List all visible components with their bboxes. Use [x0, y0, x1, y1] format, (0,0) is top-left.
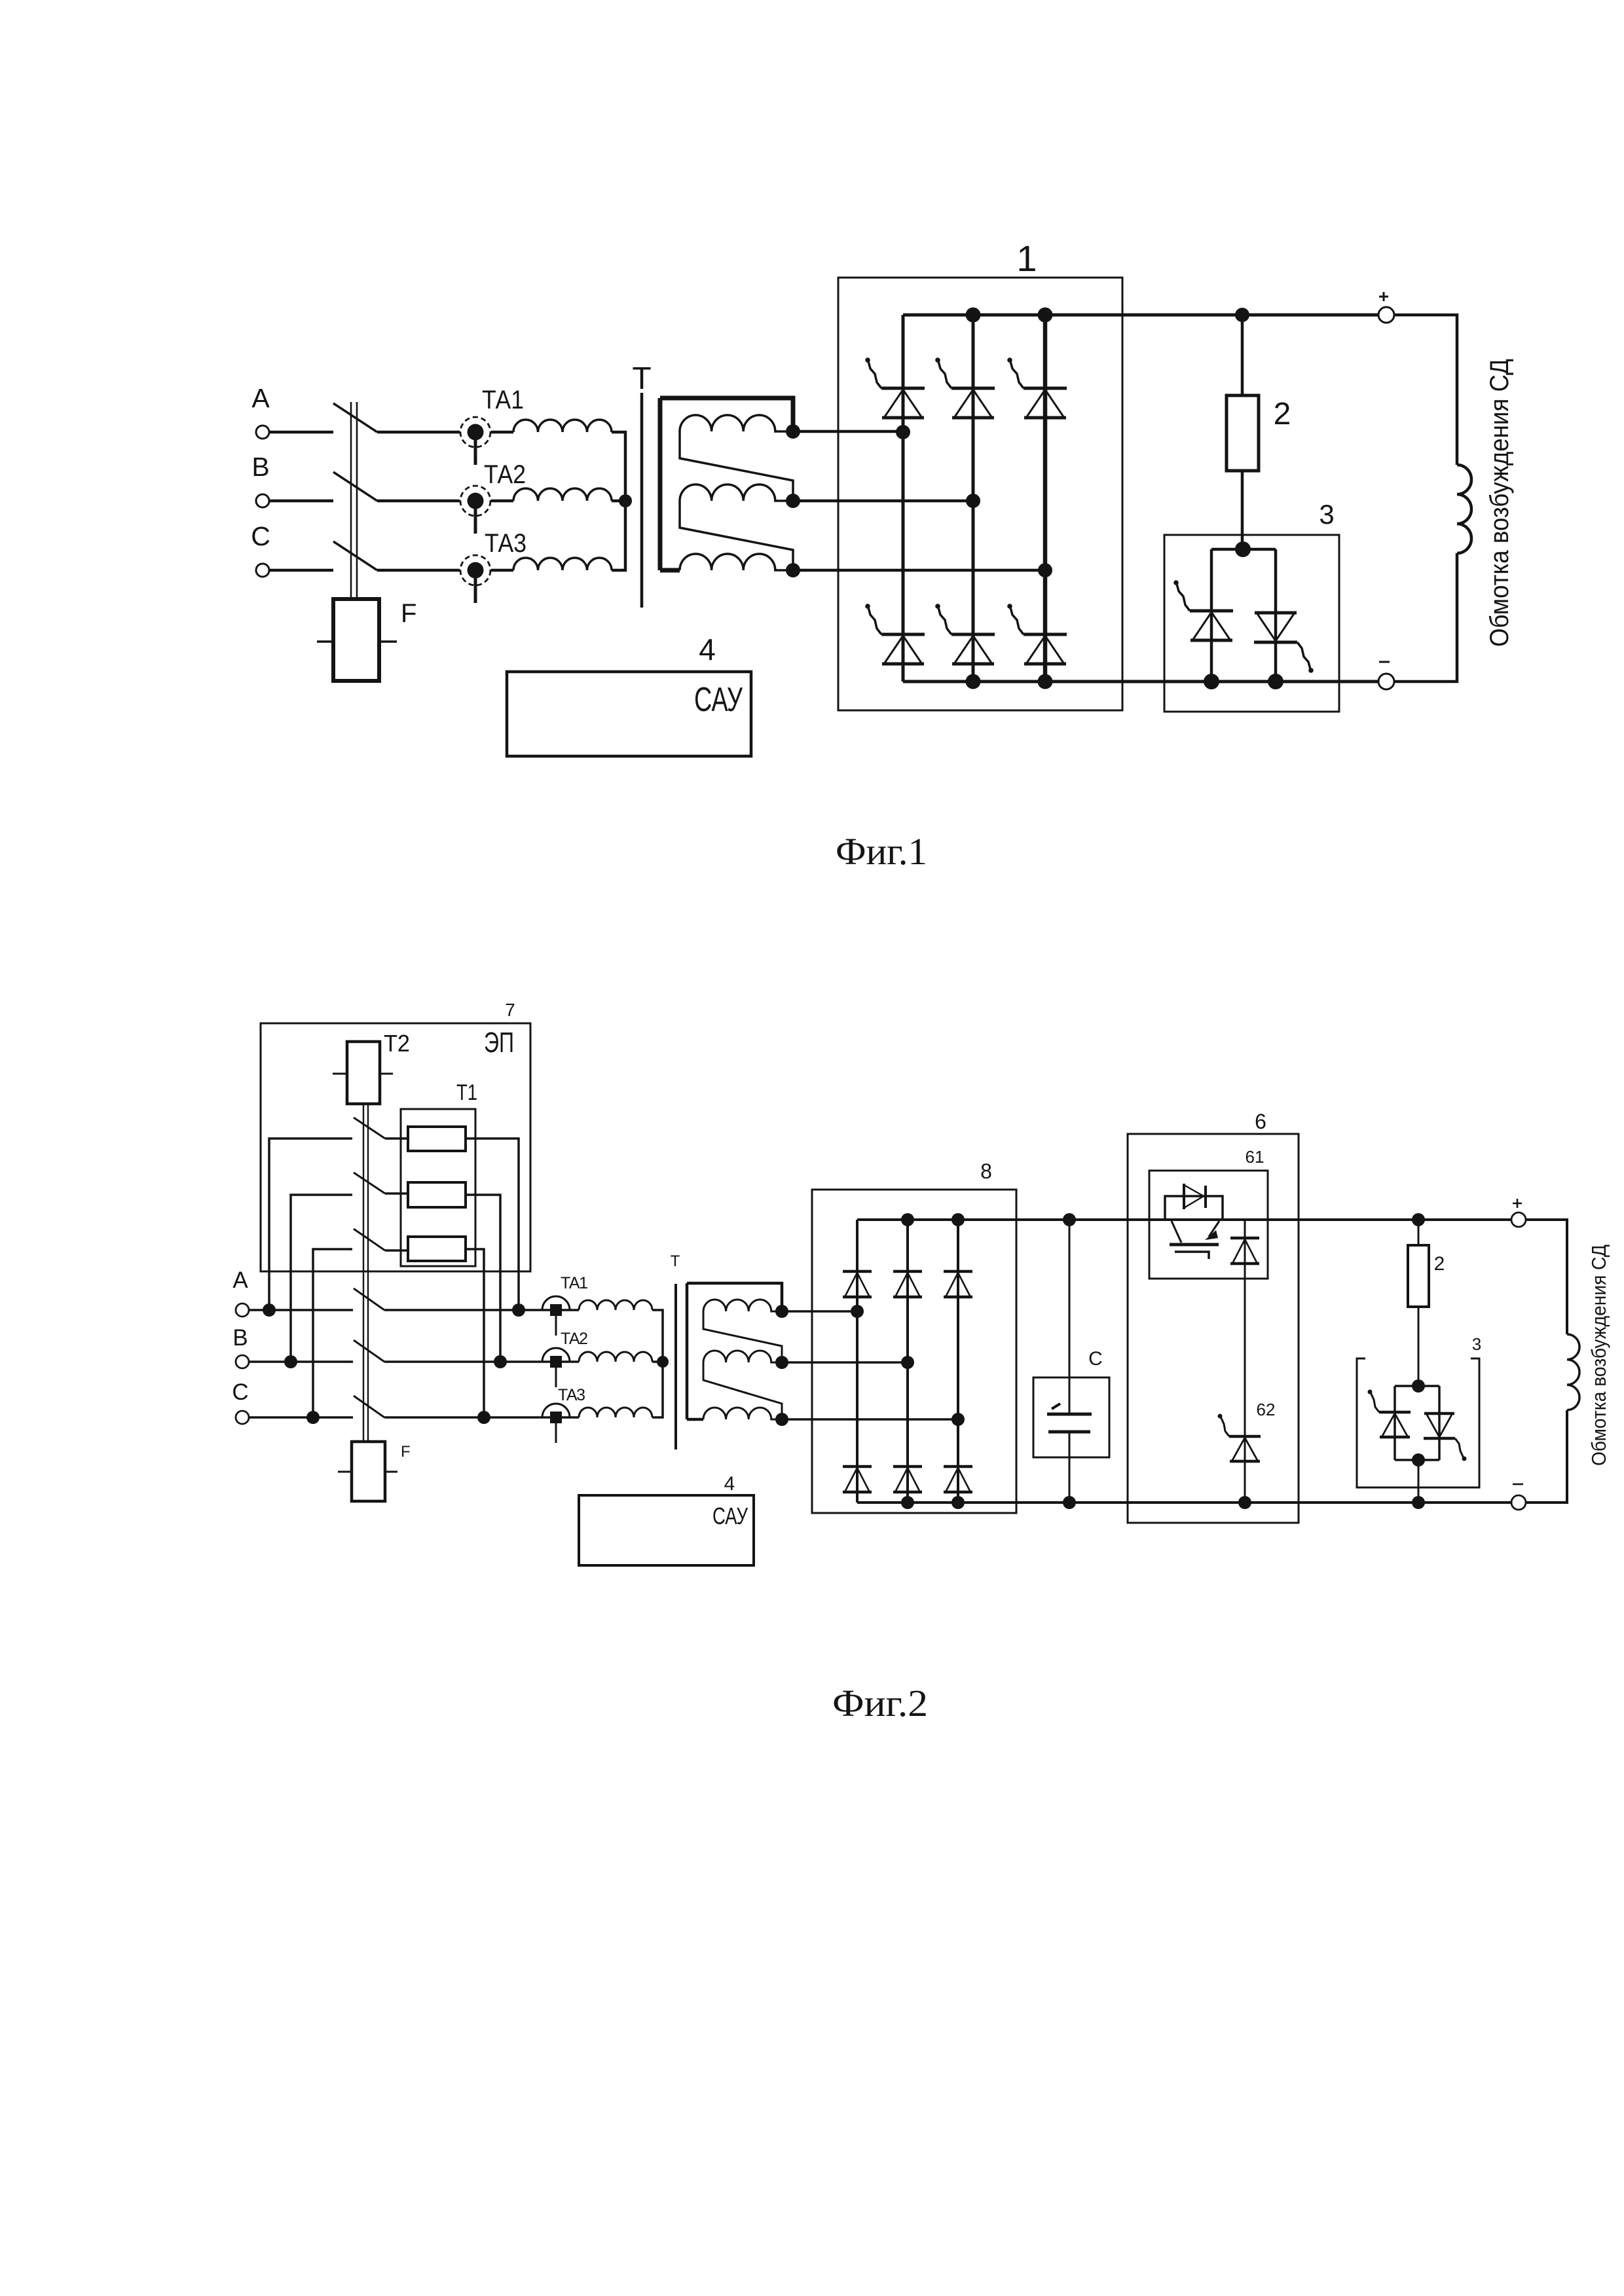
plus output terminal [1378, 307, 1394, 323]
TA3 secondary stub [474, 578, 477, 603]
wire coil1 to star point [612, 432, 625, 501]
svg-text:2: 2 [1434, 1253, 1445, 1275]
transformer T secondary winding 1 [680, 415, 793, 431]
chopper column wire [1244, 1220, 1246, 1503]
wire secondary2 a to bridge 8 [782, 1310, 857, 1313]
IGBT gate bar [1175, 1252, 1209, 1259]
svg-text:F: F [401, 1443, 411, 1461]
junction box3 left bottom [1204, 674, 1219, 689]
resistor 2-2 [1408, 1245, 1429, 1307]
wire bus to resistor 2-2 [1418, 1220, 1420, 1245]
transformer T primary winding 1 [513, 420, 612, 432]
wire secondary a to bridge [793, 430, 903, 433]
wire coil2 to star point [612, 500, 625, 503]
bridge 8 leg 2 [906, 1220, 909, 1503]
svg-text:ТА2: ТА2 [561, 1330, 588, 1348]
wire coil3 to star point [612, 501, 625, 570]
crowbar2 right branch [1438, 1386, 1441, 1460]
TA2-2 stub [555, 1368, 557, 1387]
diode bridge box 8 [812, 1190, 1016, 1513]
svg-text:F: F [401, 599, 416, 628]
TA1 secondary stub [474, 440, 477, 465]
wire phase C to switch [269, 569, 333, 572]
primary star junction [619, 494, 632, 507]
junction crowbar2 bottom [1412, 1453, 1425, 1467]
field winding [1457, 465, 1471, 553]
thyristor VS7 [1173, 580, 1233, 640]
wire TA2 to primary2 coil2 [562, 1360, 579, 1363]
plus sign 2 [1513, 1199, 1522, 1208]
wire TA3 to primary coil 3 [491, 569, 513, 572]
diode VD3 [944, 1271, 972, 1297]
svg-text:ЭП: ЭП [484, 1027, 514, 1059]
main switch blade phase A [354, 1288, 384, 1310]
junction crowbar2 bus [1412, 1496, 1425, 1509]
switch QF blade phase B [333, 472, 377, 501]
diode VD5 [893, 1467, 922, 1492]
transformer T secondary winding 2 [680, 484, 793, 501]
junction positive bus to resistor [1235, 308, 1249, 322]
bypass diode bar2 [1204, 1186, 1207, 1208]
svg-text:САУ: САУ [712, 1503, 748, 1529]
IGBT module box 61 [1149, 1171, 1268, 1279]
bridge 8 leg 1 [856, 1220, 858, 1503]
wire capacitor to negative bus [1069, 1432, 1071, 1503]
crowbar2 top link [1395, 1385, 1439, 1387]
switch linkage double line [351, 402, 357, 599]
wire TA2 to primary coil 2 [491, 500, 513, 503]
wire phase C2 [249, 1416, 353, 1419]
svg-text:4: 4 [724, 1473, 735, 1495]
minus output terminal [1378, 674, 1394, 689]
svg-text:4: 4 [699, 632, 716, 666]
junction bus to resistor 2-2 [1412, 1213, 1425, 1226]
zigzag link 2 [680, 501, 793, 570]
svg-text:3: 3 [1472, 1334, 1481, 1354]
crowbar box 3-2 [1357, 1358, 1479, 1487]
junction tap A [263, 1303, 276, 1317]
transformer T2 core bar [674, 1284, 677, 1449]
wire phase A to switch [269, 431, 333, 434]
thyristor 62 [1218, 1414, 1261, 1462]
thyristor VS6 [1007, 604, 1067, 664]
wire switch C to TA3 [377, 569, 460, 572]
thyristor VS4 [865, 604, 925, 664]
svg-text:7: 7 [505, 1000, 515, 1020]
junction input c2 [951, 1413, 965, 1426]
svg-text:Т1: Т1 [456, 1080, 477, 1105]
current transformer TA3-2 [542, 1404, 570, 1417]
junction capacitor top [1063, 1213, 1076, 1226]
wire resistor 2-2 to crowbar 2 [1418, 1307, 1420, 1386]
thyristor VS3 [1007, 357, 1067, 418]
secondary node a [786, 424, 800, 439]
bypass diode triangle [1184, 1185, 1204, 1208]
svg-text:С: С [1088, 1348, 1103, 1370]
resistor 2 [1227, 395, 1259, 471]
junction box3 right bottom [1268, 674, 1283, 689]
junction crowbar2 top [1412, 1379, 1425, 1393]
junction return B [494, 1355, 507, 1368]
drive F box [333, 599, 379, 681]
junction tap C [306, 1411, 320, 1424]
minus sign [1379, 661, 1390, 663]
secondary bottom link [660, 568, 680, 573]
thyristor VS9 [1368, 1390, 1411, 1438]
thyristor VS2 [935, 357, 995, 418]
plus sign [1379, 292, 1388, 301]
secondary2 bottom link [687, 1418, 703, 1421]
return leg phase C [466, 1249, 484, 1417]
current transformer TA3 [460, 555, 490, 585]
IGBT body bar [1170, 1243, 1219, 1247]
switch QF blade phase C [333, 541, 377, 570]
svg-text:А: А [251, 383, 270, 413]
wire crowbar2 to negative bus [1418, 1460, 1420, 1503]
wire switch C to TA3 [384, 1416, 550, 1419]
wire phase B to switch [269, 500, 333, 503]
wire switch A to TA1 [377, 431, 460, 434]
wire field winding to minus terminal [1394, 553, 1457, 682]
svg-text:ТА3: ТА3 [558, 1386, 585, 1404]
junction top leg2 [966, 308, 981, 323]
thyristor VS8 [1254, 613, 1314, 673]
node A2 terminal [236, 1303, 249, 1317]
chopper series diode [1230, 1238, 1259, 1264]
wire phase B2 [249, 1360, 353, 1363]
bypass diode bar1 [1183, 1184, 1185, 1209]
secondary top link [660, 398, 793, 431]
return leg phase B [466, 1195, 500, 1362]
diode VD4 [843, 1467, 872, 1492]
tap riser phase B [291, 1195, 352, 1362]
svg-text:2: 2 [1274, 397, 1291, 431]
thyristor VS5 [935, 604, 995, 664]
wire blade C to R3 [385, 1249, 408, 1252]
contactor drive K2 ticks [333, 1073, 393, 1075]
junction input b2 [901, 1356, 914, 1369]
capacitor C plates [1047, 1414, 1092, 1432]
svg-text:ТА1: ТА1 [482, 386, 524, 414]
field winding 2 [1567, 1334, 1579, 1410]
control system box 4-2 [579, 1495, 754, 1565]
diode VD2 [893, 1271, 922, 1297]
bypass blade phase A [354, 1118, 385, 1139]
wire secondary b to bridge [793, 500, 973, 503]
negative bus 2 [857, 1501, 1511, 1504]
IGBT collector slant [1172, 1221, 1181, 1243]
node B terminal [256, 494, 269, 507]
wire coil1 to star2 [652, 1310, 663, 1362]
junction chopper bottom [1238, 1496, 1251, 1509]
zigzag2 link 1 [703, 1311, 782, 1362]
transformer T2 secondary winding 1 [703, 1300, 782, 1311]
drive F2 box [352, 1442, 385, 1501]
node C2 terminal [236, 1411, 249, 1424]
junction input a2 [851, 1305, 864, 1318]
wire coil3 to star2 [652, 1362, 663, 1417]
junction input b [966, 494, 980, 508]
transformer T primary winding 2 [513, 488, 612, 501]
junction bottom leg3 [1038, 674, 1053, 689]
wire TA1 to primary2 coil1 [562, 1309, 579, 1311]
box3 right branch wire [1274, 549, 1278, 682]
zigzag2 link 2 [703, 1362, 782, 1419]
diode VD1 [843, 1271, 872, 1297]
transformer T secondary winding 3 [680, 554, 793, 570]
drive F2 ticks [338, 1471, 397, 1473]
wire field winding 2 to minus terminal 2 [1526, 1410, 1567, 1503]
svg-text:61: 61 [1246, 1147, 1264, 1167]
wire bus to resistor 2 [1241, 315, 1244, 395]
transformer T core bar [640, 393, 644, 608]
wire bus to capacitor [1069, 1220, 1071, 1414]
tap riser phase C [313, 1249, 352, 1417]
junction bottom leg3-2 [951, 1496, 965, 1509]
bridge 8 leg 3 [957, 1220, 959, 1503]
wire resistor 2 to box 3 [1241, 471, 1244, 549]
junction box3 top [1235, 541, 1251, 557]
minus output terminal 2 [1511, 1495, 1526, 1510]
wire switch B to TA2 [377, 500, 460, 503]
current transformer TA1 [460, 417, 490, 447]
secondary left bus [658, 398, 663, 570]
svg-text:САУ: САУ [694, 681, 743, 719]
junction bottom leg2 [966, 674, 981, 689]
current transformer TA2-2 [542, 1348, 570, 1362]
junction capacitor bottom [1063, 1496, 1076, 1509]
svg-text:А: А [232, 1267, 248, 1293]
wire blade B to R2 [385, 1192, 408, 1195]
junction tap B [284, 1355, 297, 1368]
svg-text:В: В [251, 452, 269, 482]
bridge leg 3 [1043, 315, 1048, 682]
svg-text:В: В [232, 1325, 248, 1351]
svg-text:Т: Т [671, 1252, 680, 1270]
secondary2 left bus [686, 1283, 689, 1419]
junction return A [512, 1303, 525, 1317]
crowbar box 3 [1164, 535, 1339, 712]
IGBT emitter arrow [1205, 1230, 1218, 1240]
contactor linkage double line [363, 1104, 368, 1442]
drive F side ticks [317, 640, 397, 643]
junction top leg2-2 [901, 1213, 914, 1226]
chopper box 6 [1128, 1134, 1299, 1523]
crowbar2 left branch [1393, 1386, 1396, 1460]
wire switch A to TA1 [384, 1309, 550, 1311]
wire secondary2 c to bridge 8 [782, 1418, 958, 1421]
svg-text:С: С [232, 1379, 248, 1405]
starting resistor R3 [408, 1237, 466, 1261]
switch QF blade phase A [333, 403, 377, 432]
positive bus 2 [857, 1218, 1511, 1221]
TA3-2 stub [555, 1423, 557, 1443]
svg-text:Т: Т [632, 361, 651, 396]
current transformer TA2 [460, 486, 490, 516]
bypass blade phase C [354, 1229, 385, 1250]
junction top leg3 [1038, 308, 1053, 323]
secondary2 top link [687, 1283, 782, 1311]
capacitor C box [1033, 1377, 1109, 1457]
transformer T primary winding 3 [513, 558, 612, 570]
box3 left branch wire [1210, 549, 1213, 682]
secondary node b [786, 494, 800, 508]
bridge leg 1 [902, 315, 905, 682]
svg-text:ТА3: ТА3 [485, 529, 526, 558]
positive bus [903, 314, 1378, 317]
junction input c [1038, 563, 1052, 577]
wire secondary2 b to bridge 8 [782, 1361, 908, 1364]
wire TA3 to primary2 coil3 [562, 1416, 579, 1419]
main switch blade phase B [354, 1340, 384, 1362]
box3 top link [1211, 548, 1276, 551]
svg-text:ТА2: ТА2 [484, 460, 526, 489]
junction input a [896, 425, 910, 439]
starter unit box 7 [261, 1023, 530, 1271]
svg-text:Обмотка возбуждения СД: Обмотка возбуждения СД [1485, 359, 1514, 647]
control system box 4 [507, 672, 751, 756]
primary star junction 2 [657, 1356, 669, 1368]
current transformer TA1-2 [542, 1296, 570, 1310]
negative bus [903, 680, 1378, 683]
wire plus terminal to field winding [1394, 315, 1457, 465]
starting resistor box T1 [401, 1109, 475, 1266]
node A terminal [256, 426, 269, 439]
contactor drive K2 box [347, 1042, 380, 1104]
transformer T2 primary winding 3 [579, 1408, 652, 1417]
secondary2 node b [775, 1356, 788, 1369]
bypass blade phase B [354, 1173, 385, 1194]
svg-text:62: 62 [1257, 1400, 1276, 1419]
starting resistor R2 [408, 1182, 466, 1207]
minus sign 2 [1513, 1484, 1523, 1485]
diode VD6 [944, 1467, 972, 1492]
thyristor VS10 [1424, 1413, 1467, 1461]
plus output terminal 2 [1511, 1212, 1526, 1227]
crowbar2 bottom link [1395, 1459, 1439, 1461]
svg-text:ТА1: ТА1 [561, 1274, 588, 1292]
svg-text:6: 6 [1255, 1110, 1266, 1133]
wire TA1 to primary coil 1 [491, 431, 513, 434]
capacitor polarity tick [1052, 1404, 1060, 1409]
svg-text:Фиг.1: Фиг.1 [836, 830, 927, 873]
IGBT bypass branch [1165, 1196, 1223, 1220]
node B2 terminal [236, 1355, 249, 1368]
return leg phase A [466, 1139, 519, 1310]
wire blade A to R1 [385, 1137, 408, 1140]
junction return C [477, 1411, 490, 1424]
secondary node c [786, 563, 800, 577]
svg-text:Т2: Т2 [384, 1030, 410, 1057]
main switch blade phase C [354, 1396, 384, 1417]
zigzag link 1 [680, 431, 793, 501]
TA2 secondary stub [474, 509, 477, 534]
svg-text:С: С [251, 521, 270, 551]
svg-text:Обмотка возбуждения СД: Обмотка возбуждения СД [1587, 1245, 1610, 1466]
junction top leg3-2 [951, 1213, 965, 1226]
transformer T2 primary winding 2 [579, 1352, 652, 1362]
svg-text:3: 3 [1319, 499, 1334, 530]
wire phase A2 [249, 1309, 353, 1311]
transformer T2 secondary winding 3 [703, 1408, 782, 1419]
thyristor bridge box 1 [838, 278, 1122, 710]
junction bottom leg2-2 [901, 1496, 914, 1509]
secondary2 node c [775, 1413, 788, 1426]
TA1-2 stub [555, 1316, 557, 1336]
transformer T2 secondary winding 2 [703, 1351, 782, 1362]
starting resistor R1 [408, 1127, 466, 1151]
tap riser phase A [269, 1139, 352, 1310]
secondary2 node a [775, 1305, 788, 1318]
wire coil2 to star2 [652, 1360, 663, 1363]
svg-text:1: 1 [1016, 238, 1037, 279]
svg-text:8: 8 [980, 1159, 992, 1183]
svg-text:Фиг.2: Фиг.2 [832, 1682, 928, 1724]
transformer T2 primary winding 1 [579, 1300, 652, 1310]
IGBT emitter slant [1209, 1221, 1219, 1237]
wire switch B to TA2 [384, 1360, 550, 1363]
bridge leg 2 [972, 315, 975, 682]
wire plus terminal 2 to field winding 2 [1526, 1220, 1567, 1334]
thyristor VS1 [865, 357, 925, 418]
node C terminal [256, 564, 269, 577]
wire secondary c to bridge [793, 569, 1045, 572]
